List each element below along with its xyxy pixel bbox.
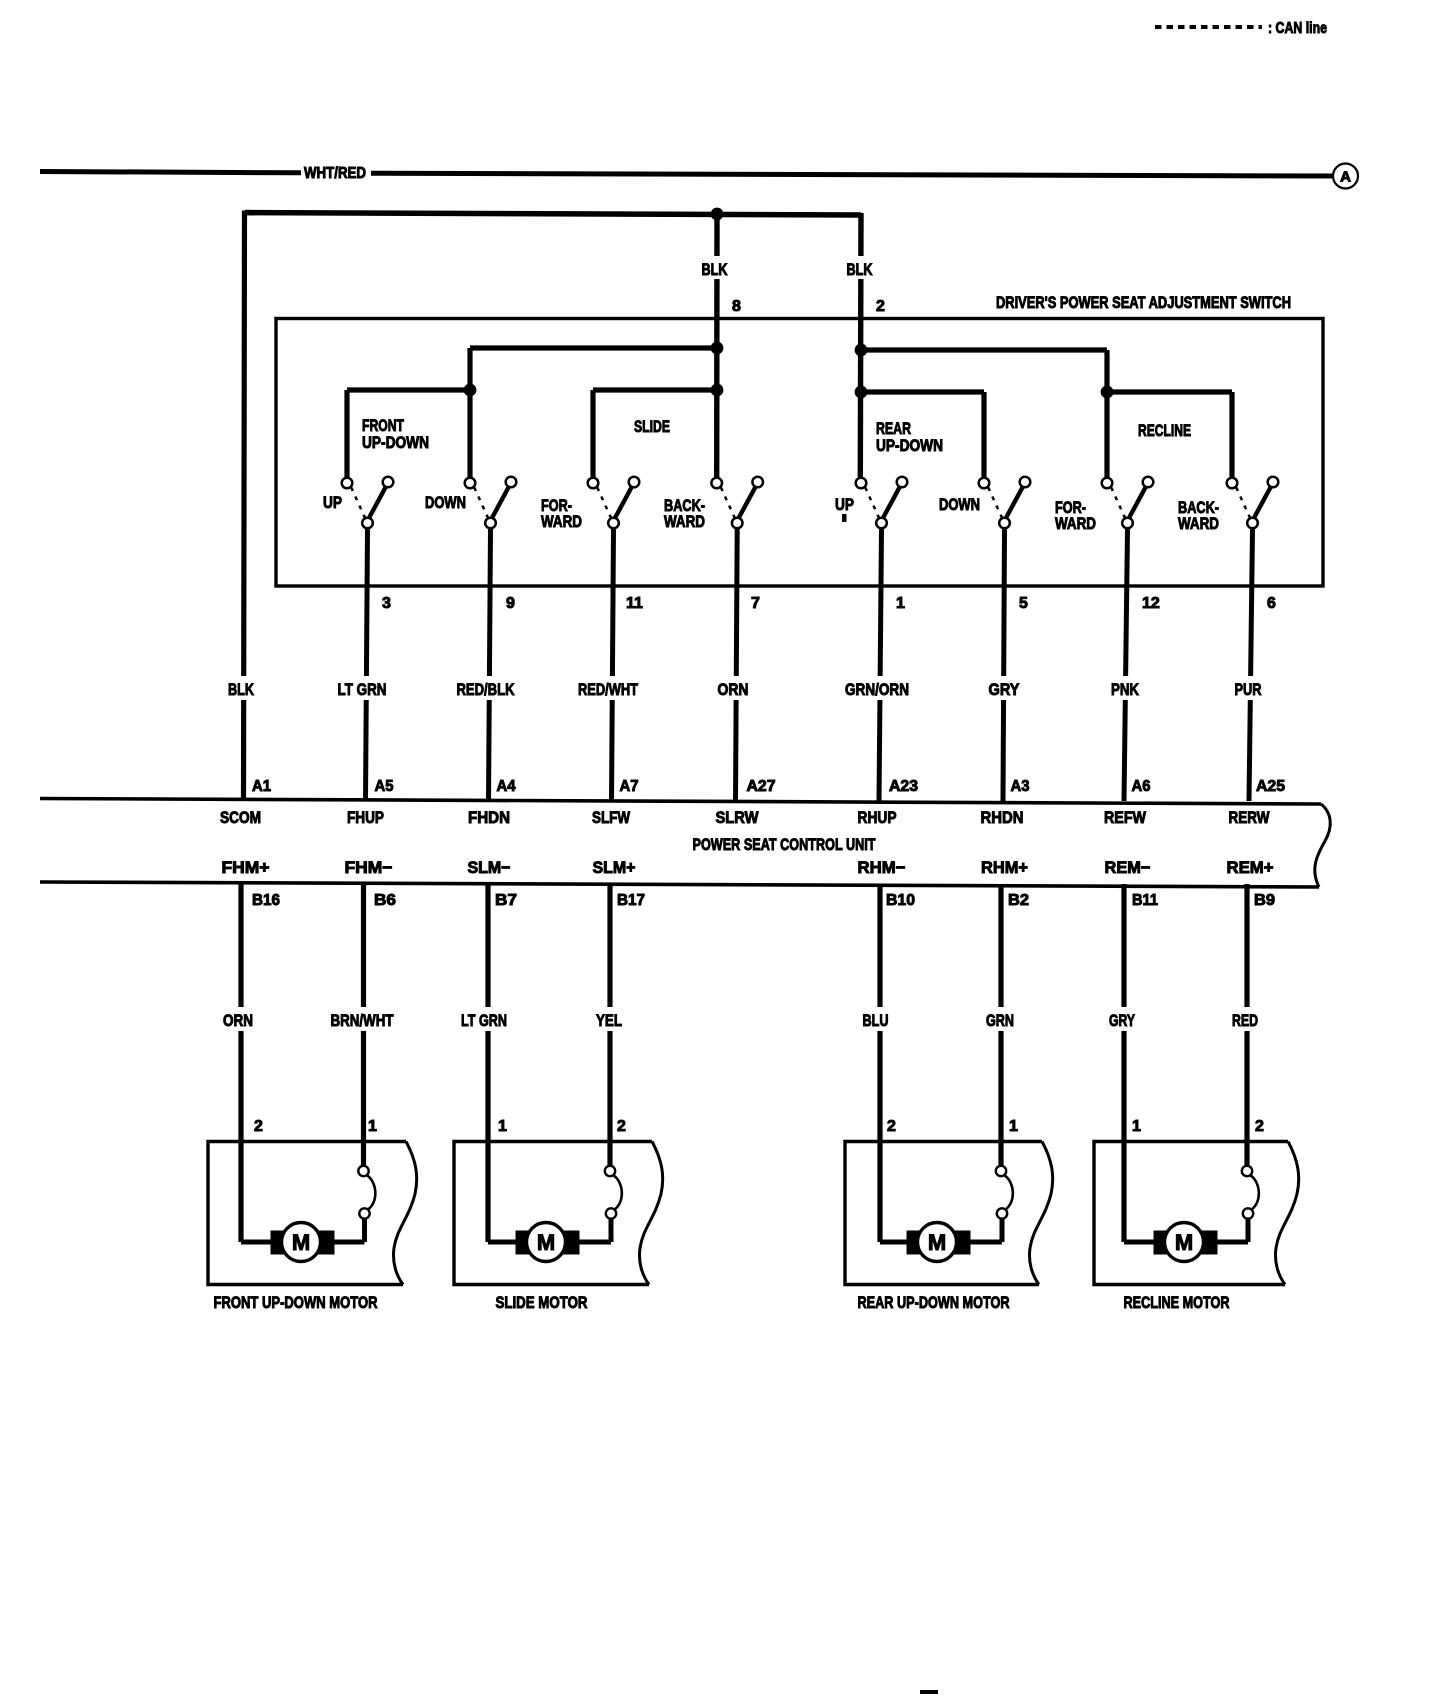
svg-text:SLFW: SLFW: [592, 808, 631, 827]
svg-text:A23: A23: [889, 778, 918, 795]
CAN line legend dashed sample: [1155, 25, 1262, 29]
wire FHM- (BRN/WHT): [361, 884, 366, 1166]
box DRIVER'S POWER SEAT ADJUSTMENT SWITCH: [276, 319, 1323, 587]
wire SLM- (LT GRN): [485, 884, 490, 1242]
svg-text:BLK: BLK: [847, 260, 874, 279]
svg-text:RED/BLK: RED/BLK: [457, 680, 516, 699]
svg-text:B6: B6: [374, 892, 396, 909]
svg-text:2: 2: [254, 1118, 263, 1135]
motor REAR UP-DOWN MOTOR right brush: [953, 1231, 971, 1255]
svg-text:A6: A6: [1132, 778, 1151, 795]
wire recline-backward (pin6) output: [1249, 529, 1253, 801]
label wire colour RED/WHT: [575, 676, 641, 700]
power seat control unit right torn edge: [1315, 804, 1330, 887]
motor RECLINE MOTOR M circle: [1165, 1223, 1204, 1262]
svg-text:7: 7: [751, 595, 760, 612]
motor SLIDE MOTOR left lead: [486, 1139, 491, 1242]
motor box FRONT UP-DOWN MOTOR torn right edge: [393, 1142, 416, 1285]
svg-text:YEL: YEL: [596, 1011, 622, 1030]
motor box FRONT UP-DOWN MOTOR: [208, 1142, 406, 1285]
wire slide-forward vertical: [590, 390, 595, 477]
svg-text:2: 2: [1255, 1118, 1264, 1135]
label wire colour BRN/WHT (motor side): [328, 1007, 397, 1031]
svg-text:RECLINE: RECLINE: [1138, 421, 1191, 440]
wire distribution right upper (to recline): [861, 347, 1107, 352]
svg-text:FRONT UP-DOWN MOTOR: FRONT UP-DOWN MOTOR: [214, 1293, 378, 1312]
motor RECLINE MOTOR right lead with connector contacts: [1242, 1166, 1252, 1176]
svg-text:WARD: WARD: [664, 512, 705, 531]
motor SLIDE MOTOR M circle: [527, 1223, 566, 1262]
svg-text:DOWN: DOWN: [425, 493, 466, 512]
svg-text:1: 1: [1132, 1118, 1141, 1135]
svg-text:BLK: BLK: [702, 260, 729, 279]
svg-text:2: 2: [876, 298, 885, 315]
svg-text:A7: A7: [620, 778, 639, 795]
switch slide-backward (pin7): [738, 486, 756, 519]
label wire colour BLU (motor side): [860, 1007, 892, 1031]
svg-text:WARD: WARD: [1178, 514, 1219, 533]
wire RHM+ (GRN): [998, 884, 1003, 1166]
label wire colour YEL (motor side): [593, 1007, 625, 1031]
motor RECLINE MOTOR left lead: [1122, 1139, 1127, 1242]
svg-text:LT GRN: LT GRN: [461, 1011, 507, 1030]
motor REAR UP-DOWN MOTOR left lead: [878, 1139, 883, 1242]
motor box RECLINE MOTOR torn right edge: [1275, 1142, 1298, 1285]
wire rear-down (pin5) output: [1003, 529, 1005, 801]
svg-text:5: 5: [1019, 595, 1028, 612]
svg-text:B7: B7: [495, 892, 517, 909]
wire WHT/RED bus right segment: [371, 173, 1332, 176]
svg-text:1: 1: [1009, 1118, 1018, 1135]
svg-text:FHM+: FHM+: [222, 858, 270, 877]
wire front-down vertical: [467, 348, 472, 477]
switch rear-up (pin1): [883, 486, 901, 519]
svg-text:UP: UP: [835, 495, 854, 514]
motor RECLINE MOTOR right brush: [1200, 1231, 1218, 1255]
label wire colour LT GRN: [335, 676, 390, 700]
svg-text:A1: A1: [252, 778, 271, 795]
label wire colour RED (motor side): [1229, 1007, 1261, 1031]
svg-text:A4: A4: [497, 778, 516, 795]
svg-text:B17: B17: [617, 892, 645, 909]
svg-text:9: 9: [506, 595, 515, 612]
wire slide-backward (pin7) output: [736, 529, 738, 801]
scan speck under rear UP: [842, 514, 847, 522]
wire SLM+ (YEL): [607, 884, 612, 1166]
label wire colour GRN (motor side): [983, 1007, 1017, 1031]
label wire colour GRY: [986, 676, 1023, 700]
svg-text:RHM+: RHM+: [981, 858, 1028, 877]
svg-text:B16: B16: [252, 892, 280, 909]
svg-text:PNK: PNK: [1111, 680, 1140, 699]
svg-text:BLU: BLU: [863, 1011, 889, 1030]
svg-text:B9: B9: [1254, 892, 1275, 909]
svg-text:B10: B10: [886, 892, 915, 909]
svg-text:REM+: REM+: [1227, 858, 1274, 877]
wire slide-forward (pin11) output: [612, 529, 614, 801]
motor box SLIDE MOTOR torn right edge: [639, 1142, 662, 1285]
motor FRONT UP-DOWN MOTOR left brush: [271, 1231, 289, 1255]
label wire colour BLK: [225, 676, 257, 700]
svg-text:2: 2: [887, 1118, 896, 1135]
svg-text:1: 1: [368, 1118, 377, 1135]
svg-text:2: 2: [617, 1118, 626, 1135]
switch front-down (pin9): [492, 486, 510, 519]
switch recline-backward (pin6): [1254, 486, 1272, 519]
svg-text:SCOM: SCOM: [220, 808, 261, 827]
junction wire8/upper: [711, 342, 724, 355]
svg-text:M: M: [1175, 1230, 1193, 1255]
svg-text:3: 3: [382, 595, 391, 612]
switch recline-forward (pin12): [1129, 486, 1147, 519]
label wire colour PNK: [1108, 676, 1142, 700]
wire rear-down vertical: [981, 392, 986, 477]
power seat control unit top edge: [40, 799, 1321, 805]
svg-text:WARD: WARD: [1055, 514, 1096, 533]
wire front-up vertical: [344, 390, 349, 477]
svg-text:A5: A5: [375, 778, 394, 795]
wire rear-up (pin1) output: [879, 529, 882, 801]
svg-text:M: M: [928, 1230, 946, 1255]
svg-text:ORN: ORN: [223, 1011, 253, 1030]
svg-text:RERW: RERW: [1229, 808, 1271, 827]
wire pin2 vertical (BLK): [858, 213, 864, 477]
svg-text:SLM−: SLM−: [468, 858, 511, 877]
junction wire8/lower: [711, 384, 724, 397]
svg-text:6: 6: [1267, 595, 1276, 612]
svg-text:1: 1: [498, 1118, 507, 1135]
svg-text:SLM+: SLM+: [593, 858, 636, 877]
svg-text:WHT/RED: WHT/RED: [304, 165, 366, 182]
wire distribution left upper (to front down): [470, 345, 717, 350]
svg-text:FHUP: FHUP: [347, 808, 384, 827]
wire RHM- (BLU): [877, 884, 882, 1242]
wire distribution slide-forward branch: [593, 387, 717, 392]
wire SCOM vertical (BLK) down to control unit A1: [244, 211, 245, 801]
wire pin8 vertical (BLK): [714, 214, 720, 477]
motor SLIDE MOTOR right lead with connector contacts: [605, 1166, 615, 1176]
wire front-up (pin3) output: [366, 529, 368, 801]
svg-text:REM−: REM−: [1105, 858, 1151, 877]
svg-text:A3: A3: [1011, 778, 1030, 795]
svg-text:RED/WHT: RED/WHT: [578, 680, 638, 699]
svg-text:PUR: PUR: [1235, 680, 1262, 699]
svg-text:11: 11: [626, 595, 643, 612]
svg-text:FHM−: FHM−: [345, 858, 393, 877]
svg-text:B2: B2: [1008, 892, 1029, 909]
power seat control unit bottom edge: [40, 882, 1319, 887]
label wire colour RED/BLK: [454, 676, 518, 700]
motor FRONT UP-DOWN MOTOR right lead with connector contacts: [358, 1166, 368, 1176]
motor box REAR UP-DOWN MOTOR: [845, 1142, 1042, 1285]
svg-text:BLK: BLK: [228, 680, 255, 699]
wire REM- (GRY): [1121, 884, 1126, 1242]
svg-text:UP-DOWN: UP-DOWN: [362, 433, 429, 452]
wire WHT/RED bus left segment: [40, 172, 301, 173]
junction recline branch: [1101, 386, 1114, 399]
wire distribution recline-backward branch: [1107, 389, 1232, 394]
svg-text:12: 12: [1142, 595, 1160, 612]
label wire colour GRY (motor side): [1106, 1007, 1138, 1031]
label wire colour GRN/ORN: [842, 676, 912, 700]
svg-text:GRN/ORN: GRN/ORN: [845, 680, 909, 699]
switch slide-forward (pin11): [615, 486, 633, 519]
label BLK on pin8 wire: [700, 256, 731, 279]
svg-text:SLIDE: SLIDE: [634, 417, 670, 436]
svg-text:RECLINE MOTOR: RECLINE MOTOR: [1124, 1293, 1230, 1312]
motor REAR UP-DOWN MOTOR left brush: [907, 1231, 925, 1255]
svg-text:FHDN: FHDN: [468, 808, 510, 827]
svg-text:UP: UP: [323, 493, 342, 512]
svg-text:A25: A25: [1256, 778, 1285, 795]
svg-text:A27: A27: [747, 778, 776, 795]
switch front-up (pin3): [369, 486, 387, 519]
svg-text:POWER SEAT CONTROL UNIT: POWER SEAT CONTROL UNIT: [693, 835, 876, 854]
motor REAR UP-DOWN MOTOR right lead with connector contacts: [996, 1166, 1006, 1176]
motor box RECLINE MOTOR: [1094, 1142, 1288, 1285]
label wire colour ORN: [715, 676, 752, 700]
svg-text:M: M: [292, 1230, 310, 1255]
connector A circle: [1333, 164, 1358, 189]
svg-text:SLIDE MOTOR: SLIDE MOTOR: [496, 1293, 588, 1312]
label wire colour ORN (motor side): [220, 1007, 256, 1031]
svg-text:RED: RED: [1232, 1011, 1258, 1030]
svg-text:DRIVER'S POWER SEAT ADJUSTMENT: DRIVER'S POWER SEAT ADJUSTMENT SWITCH: [996, 293, 1291, 312]
svg-text:WARD: WARD: [541, 512, 582, 531]
page mark bottom: [920, 1690, 938, 1695]
wire recline vertical feed: [1104, 350, 1109, 477]
motor FRONT UP-DOWN MOTOR M circle: [282, 1223, 321, 1262]
svg-text:M: M: [537, 1230, 555, 1255]
label wire colour PUR: [1232, 676, 1265, 700]
svg-text:: CAN line: : CAN line: [1268, 20, 1327, 37]
svg-text:DOWN: DOWN: [939, 495, 980, 514]
switch rear-down (pin5): [1006, 486, 1024, 519]
motor SLIDE MOTOR left brush: [516, 1231, 534, 1255]
svg-text:RHUP: RHUP: [858, 808, 897, 827]
motor RECLINE MOTOR left brush: [1154, 1231, 1172, 1255]
wire recline-backward vertical: [1229, 392, 1234, 477]
label BLK on pin2 wire: [845, 256, 875, 279]
wire distribution left lower (front up branch): [347, 387, 470, 392]
svg-text:REFW: REFW: [1104, 808, 1147, 827]
svg-text:LT GRN: LT GRN: [338, 680, 387, 699]
svg-text:GRN: GRN: [986, 1011, 1014, 1030]
wire recline-forward (pin12) output: [1124, 529, 1128, 801]
junction wire2/upper: [855, 344, 868, 357]
svg-text:B11: B11: [1132, 892, 1158, 909]
motor SLIDE MOTOR right brush: [562, 1231, 580, 1255]
svg-text:GRY: GRY: [1109, 1011, 1135, 1030]
svg-text:A: A: [1340, 169, 1351, 186]
motor FRONT UP-DOWN MOTOR right brush: [317, 1231, 335, 1255]
wire FHM+ (ORN): [238, 884, 243, 1242]
svg-text:1: 1: [896, 595, 905, 612]
svg-text:ORN: ORN: [718, 680, 749, 699]
junction at pin8 wire: [711, 208, 724, 221]
motor box REAR UP-DOWN MOTOR torn right edge: [1029, 1142, 1052, 1285]
wire top horizontal from SCOM branch to pin2: [245, 213, 861, 215]
svg-text:REAR UP-DOWN MOTOR: REAR UP-DOWN MOTOR: [858, 1293, 1010, 1312]
label wire colour LT GRN (motor side): [458, 1007, 510, 1031]
motor REAR UP-DOWN MOTOR M circle: [918, 1223, 957, 1262]
svg-text:8: 8: [732, 298, 741, 315]
svg-text:RHM−: RHM−: [858, 858, 906, 877]
svg-text:RHDN: RHDN: [981, 808, 1024, 827]
svg-text:GRY: GRY: [989, 680, 1021, 699]
junction front branch: [464, 384, 477, 397]
wire distribution rear-down branch: [861, 389, 984, 394]
svg-text:BRN/WHT: BRN/WHT: [331, 1011, 394, 1030]
motor box SLIDE MOTOR: [454, 1142, 652, 1285]
wire front-down (pin9) output: [489, 529, 491, 801]
junction wire2/lower: [855, 386, 868, 399]
svg-text:UP-DOWN: UP-DOWN: [876, 436, 943, 455]
wire REM+ (RED): [1244, 884, 1249, 1166]
motor FRONT UP-DOWN MOTOR left lead: [239, 1139, 244, 1242]
svg-text:SLRW: SLRW: [716, 808, 760, 827]
